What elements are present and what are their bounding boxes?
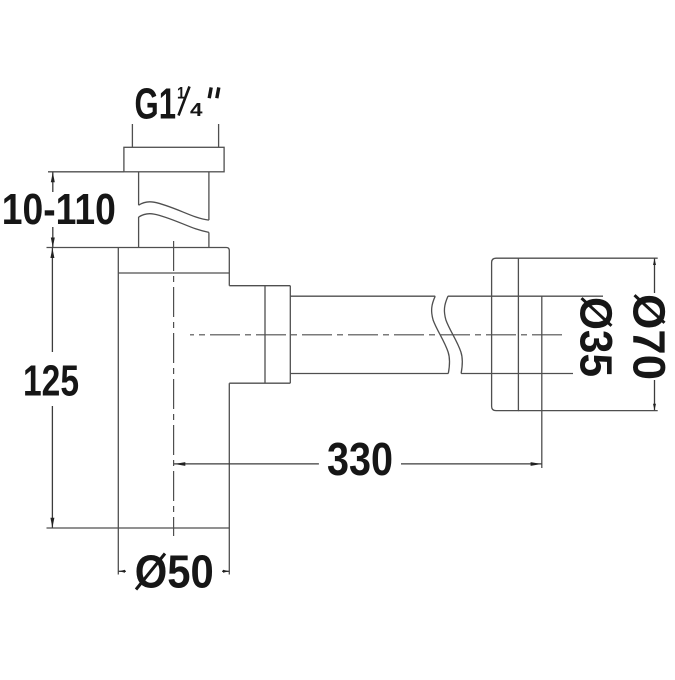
outlet pipe top line right part with dim35 extension [448,295,603,297]
inlet pipe left edge lower [138,217,140,248]
dim 50 line left segment [118,570,126,572]
break wavy line 2 on inlet pipe [139,214,209,233]
10-110 extension line on flange bottom [48,171,124,173]
arrow 125 bottom [50,518,54,528]
bottle body joint line [118,272,229,274]
bottle body right edge lower [228,383,230,528]
arrow 50 right [223,570,229,573]
dim 70 line lower segment [654,380,656,410]
label diameter 50 [135,546,214,598]
dim 125 line upper segment [51,248,53,353]
outlet step top line [229,285,290,287]
outlet pipe bottom line right part with dim35 extension [461,373,573,375]
dim 70 line upper segment [654,258,656,293]
svg-text:330: 330 [327,433,393,485]
dim 330 line left segment [174,463,319,465]
inlet pipe right edge lower [208,232,210,247]
outlet pipe top line left part [290,295,435,297]
inlet pipe right edge upper [208,172,210,220]
break wavy line 2 on outlet pipe [444,296,462,373]
arrow 70 top [653,259,656,265]
break wavy line 1 on outlet pipe [432,296,450,373]
horizontal centerline of outlet pipe [190,334,562,336]
svg-text:125: 125 [23,356,79,405]
svg-text:4: 4 [190,100,203,120]
inlet pipe left edge upper [138,172,140,205]
dim 50 line right segment [222,570,229,572]
arrow 125 top [50,248,54,258]
dim 125 line lower segment [51,406,53,528]
break wavy line 1 on inlet pipe [139,202,209,220]
wall escutcheon flange [492,258,519,410]
top wall flange of inlet [124,147,224,172]
pipe end wall line with extension down [541,296,543,468]
svg-text:10-110: 10-110 [2,185,116,234]
dim 330 line right segment [401,463,542,465]
outlet step bottom line [229,382,290,384]
svg-text:O50: O50 [135,546,214,598]
vertical centerline of body [173,241,175,536]
svg-text:O35: O35 [571,297,622,377]
outlet nut left edge [264,286,266,384]
arrow 50 left [119,570,125,573]
bottle body right edge upper [228,251,230,286]
outlet nut right edge [289,286,291,384]
svg-text:G1: G1 [135,80,177,129]
dim50 extension line left [117,528,119,575]
dim 10-110 line upper segment [52,172,54,192]
dim70 extension line top [518,257,657,259]
arrow 10-110 top [51,172,55,182]
label diameter 70 rotated [624,294,675,380]
dim50 extension line right [228,528,230,575]
extension line G left [131,124,133,147]
arrow 10-110 bottom [51,238,55,248]
label G1 1/4 inch [135,80,219,129]
dim 10-110 line lower segment [52,227,54,248]
bottle body top line with left extension [47,248,230,251]
bottle body bottom line with left extension [47,527,230,529]
arrow 330 right [531,462,542,466]
arrow 330 left [174,462,185,466]
extension line G right [218,124,220,147]
outlet pipe bottom line left part [290,373,448,375]
label diameter 35 rotated [571,297,622,377]
arrow 70 bottom [653,404,656,410]
bottle body left edge [117,248,119,529]
dim70 extension line bottom [518,410,657,412]
